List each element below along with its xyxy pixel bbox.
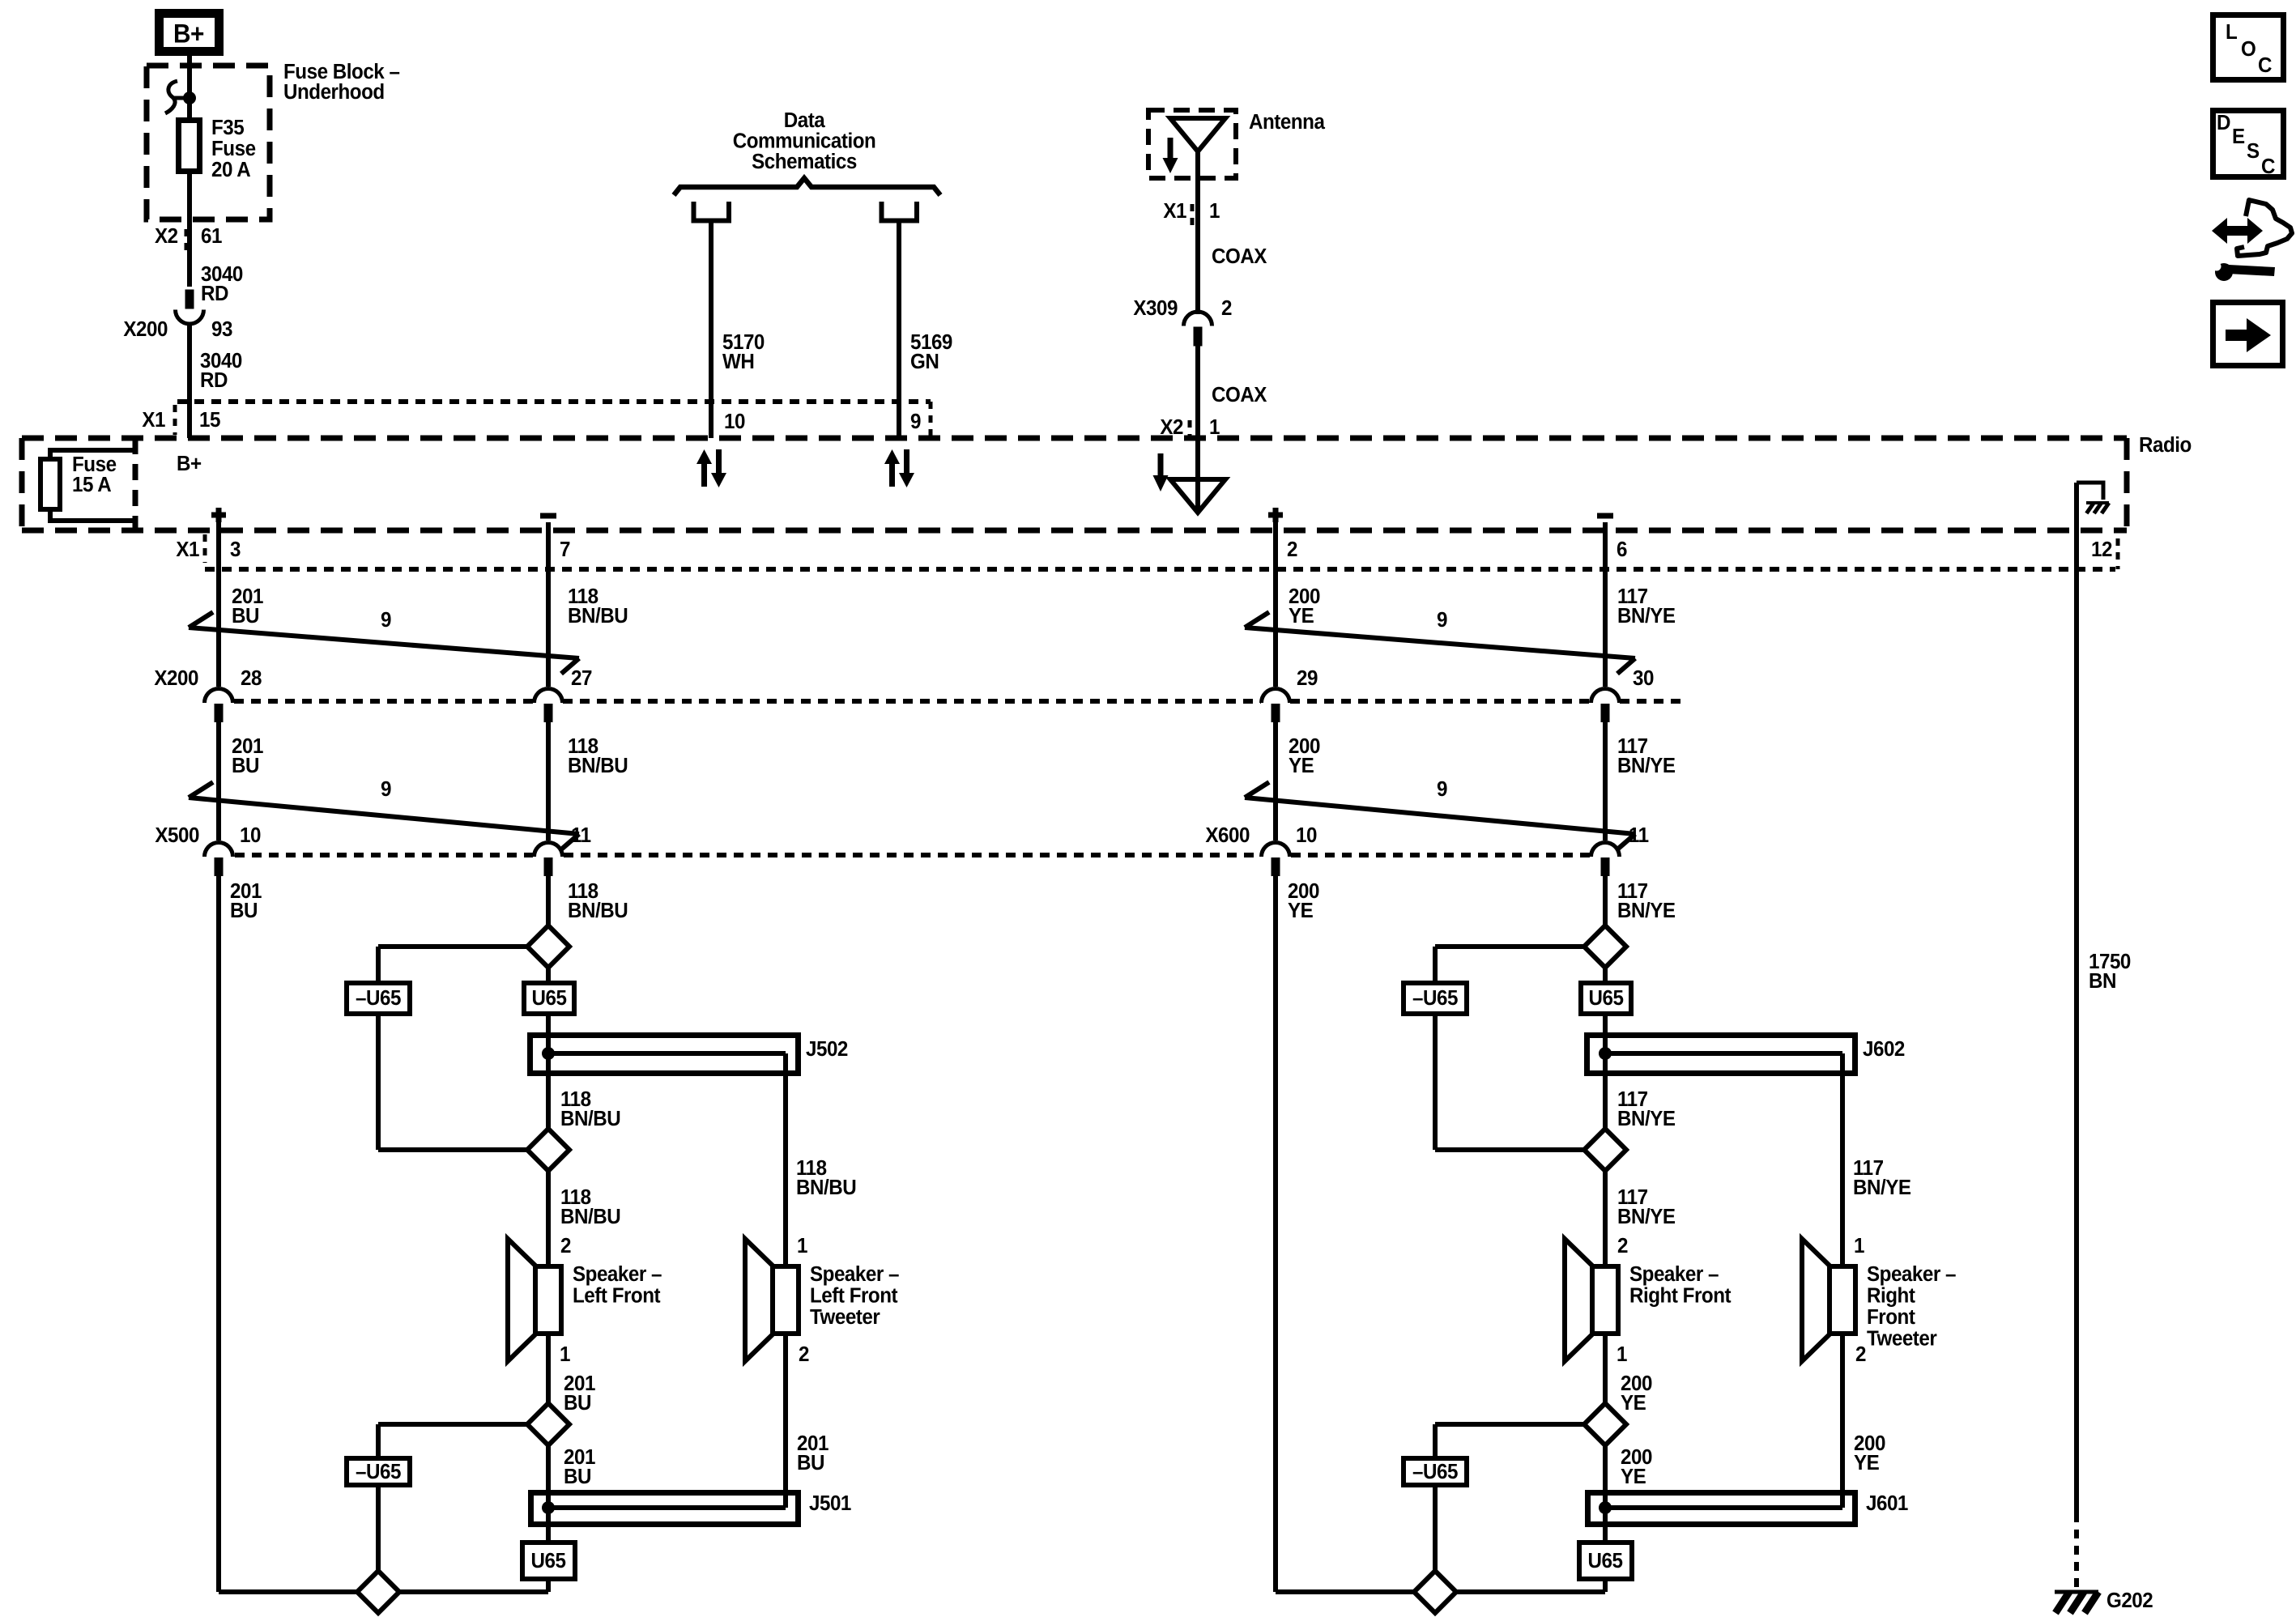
svg-text:2: 2 [1617,1234,1628,1257]
svg-text:BU: BU [564,1465,591,1488]
svg-text:12: 12 [2091,538,2112,561]
svg-text:7: 7 [560,538,570,561]
svg-text:1: 1 [797,1234,807,1257]
svg-text:X200: X200 [123,317,168,341]
svg-text:J601: J601 [1866,1491,1908,1515]
svg-text:28: 28 [241,666,262,690]
svg-text:9: 9 [381,777,391,801]
svg-text:B+: B+ [173,19,204,48]
svg-text:Tweeter: Tweeter [810,1305,880,1329]
svg-text:U65: U65 [531,1549,566,1572]
svg-text:BN/YE: BN/YE [1617,604,1676,628]
svg-text:YE: YE [1621,1465,1646,1488]
svg-text:20 A: 20 A [211,158,251,181]
svg-text:Schematics: Schematics [752,150,857,173]
svg-text:B+: B+ [177,452,202,475]
svg-text:X309: X309 [1133,296,1178,320]
svg-text:30: 30 [1633,666,1654,690]
svg-text:X2: X2 [155,224,178,248]
svg-text:BN/BU: BN/BU [568,899,628,922]
svg-text:BN/BU: BN/BU [560,1107,620,1130]
svg-text:X500: X500 [155,823,199,847]
svg-text:9: 9 [910,410,921,433]
svg-text:Right: Right [1867,1284,1916,1308]
svg-text:–U65: –U65 [356,986,401,1010]
svg-text:Front: Front [1867,1305,1916,1329]
svg-text:O: O [2241,37,2256,61]
svg-text:BN/YE: BN/YE [1617,899,1676,922]
svg-text:9: 9 [381,608,391,632]
svg-text:U65: U65 [1589,986,1624,1010]
svg-text:BN/BU: BN/BU [568,754,628,777]
svg-text:BN/YE: BN/YE [1617,754,1676,777]
svg-text:10: 10 [240,823,261,847]
svg-text:GN: GN [910,350,939,373]
svg-text:J602: J602 [1863,1037,1905,1061]
svg-text:J501: J501 [809,1491,851,1515]
svg-text:10: 10 [1296,823,1317,847]
svg-text:11: 11 [571,823,591,847]
svg-text:X1: X1 [142,408,165,432]
svg-text:C: C [2261,155,2275,178]
svg-text:U65: U65 [532,986,567,1010]
svg-text:Tweeter: Tweeter [1867,1327,1937,1351]
svg-text:D: D [2217,111,2230,134]
svg-text:Underhood: Underhood [283,80,385,104]
svg-text:2: 2 [560,1234,571,1257]
svg-text:2: 2 [1221,296,1232,320]
svg-text:29: 29 [1297,666,1318,690]
svg-text:E: E [2232,125,2245,148]
svg-text:L: L [2226,20,2237,44]
svg-text:WH: WH [722,350,754,373]
svg-text:11: 11 [1629,823,1649,847]
svg-text:J502: J502 [806,1037,848,1061]
svg-text:Speaker –: Speaker – [1867,1262,1957,1286]
svg-text:BN/BU: BN/BU [568,604,628,628]
svg-text:X200: X200 [154,666,198,690]
svg-text:BU: BU [797,1451,824,1474]
svg-text:U65: U65 [1588,1549,1623,1572]
svg-text:COAX: COAX [1212,383,1267,406]
svg-text:Radio: Radio [2139,433,2192,457]
svg-text:27: 27 [571,666,592,690]
svg-text:2: 2 [1855,1343,1866,1366]
svg-text:BN/YE: BN/YE [1617,1205,1676,1228]
svg-text:15 A: 15 A [72,473,112,496]
svg-text:Speaker –: Speaker – [1629,1262,1719,1286]
svg-text:RD: RD [201,282,228,305]
svg-text:YE: YE [1621,1391,1646,1415]
svg-text:–U65: –U65 [356,1460,401,1483]
svg-text:1: 1 [1209,199,1220,223]
svg-text:X1: X1 [176,538,199,561]
svg-text:BU: BU [230,899,258,922]
svg-text:Right Front: Right Front [1629,1284,1732,1308]
svg-text:Left Front: Left Front [573,1284,661,1308]
svg-text:61: 61 [201,224,222,248]
svg-text:COAX: COAX [1212,245,1267,268]
svg-text:Speaker –: Speaker – [810,1262,900,1286]
svg-text:Left Front: Left Front [810,1284,898,1308]
svg-text:Fuse: Fuse [211,137,256,160]
svg-text:2: 2 [1287,538,1297,561]
svg-text:BN/BU: BN/BU [796,1176,856,1199]
svg-text:9: 9 [1437,608,1447,632]
svg-text:BN/YE: BN/YE [1617,1107,1676,1130]
svg-text:Speaker –: Speaker – [573,1262,662,1286]
svg-text:BN/YE: BN/YE [1853,1176,1911,1199]
svg-text:BU: BU [564,1391,591,1415]
svg-text:9: 9 [1437,777,1447,801]
svg-text:Antenna: Antenna [1249,110,1326,134]
svg-text:G202: G202 [2106,1589,2153,1612]
svg-text:15: 15 [199,408,220,432]
svg-text:6: 6 [1617,538,1627,561]
svg-text:1: 1 [1617,1343,1627,1366]
svg-text:F35: F35 [211,116,245,139]
svg-text:YE: YE [1289,754,1314,777]
svg-text:BN: BN [2089,969,2116,993]
svg-text:3: 3 [230,538,241,561]
svg-text:X600: X600 [1205,823,1250,847]
svg-text:1: 1 [560,1343,570,1366]
svg-text:93: 93 [211,317,232,341]
svg-text:YE: YE [1288,899,1313,922]
svg-text:–U65: –U65 [1412,1460,1458,1483]
svg-text:S: S [2247,139,2260,163]
svg-text:YE: YE [1289,604,1314,628]
svg-text:X1: X1 [1163,199,1186,223]
svg-text:10: 10 [724,410,745,433]
svg-text:YE: YE [1854,1451,1879,1474]
svg-text:C: C [2258,53,2272,77]
svg-text:BN/BU: BN/BU [560,1205,620,1228]
svg-text:1: 1 [1854,1234,1864,1257]
svg-text:BU: BU [232,604,259,628]
svg-text:–U65: –U65 [1412,986,1458,1010]
svg-text:BU: BU [232,754,259,777]
svg-text:RD: RD [200,368,228,392]
svg-text:2: 2 [799,1343,809,1366]
